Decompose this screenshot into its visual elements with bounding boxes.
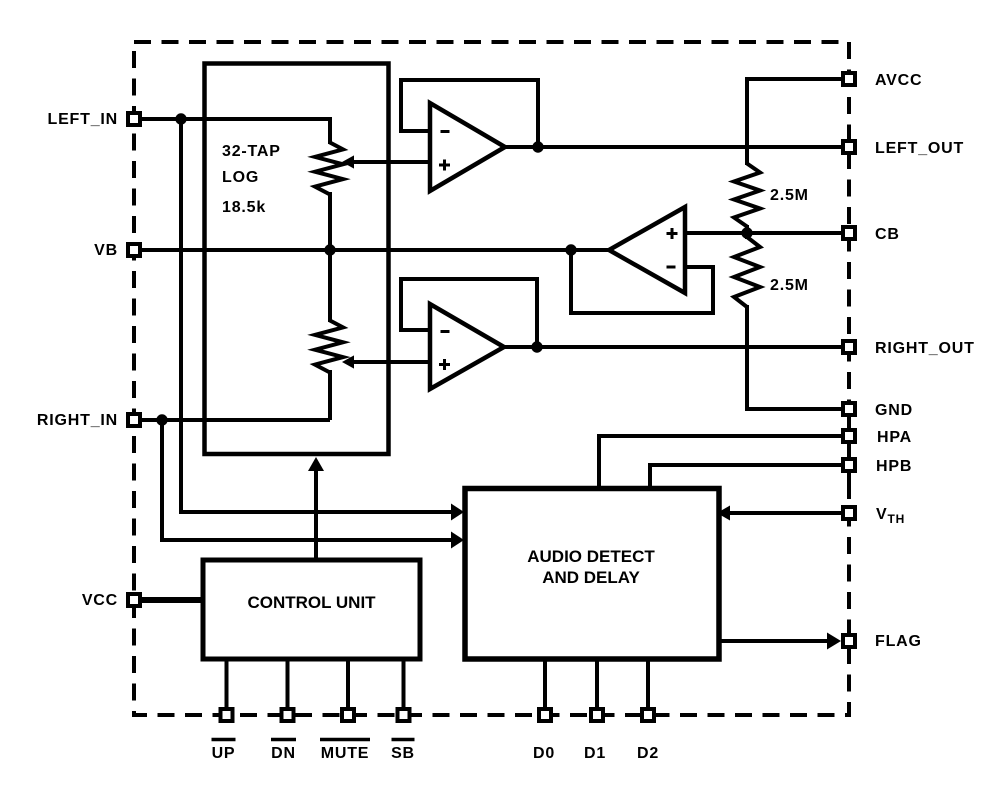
svg-text:D2: D2 bbox=[637, 745, 659, 762]
svg-text:VB: VB bbox=[94, 242, 118, 259]
svg-text:2.5M: 2.5M bbox=[770, 277, 809, 294]
svg-text:MUTE: MUTE bbox=[321, 745, 370, 762]
svg-text:D1: D1 bbox=[584, 745, 606, 762]
svg-text:CONTROL UNIT: CONTROL UNIT bbox=[247, 593, 376, 612]
svg-text:RIGHT_OUT: RIGHT_OUT bbox=[875, 340, 975, 357]
svg-text:CB: CB bbox=[875, 226, 900, 243]
svg-text:LEFT_OUT: LEFT_OUT bbox=[875, 140, 964, 157]
svg-text:DN: DN bbox=[271, 745, 296, 762]
svg-text:FLAG: FLAG bbox=[875, 633, 922, 650]
svg-text:RIGHT_IN: RIGHT_IN bbox=[37, 412, 118, 429]
svg-text:VCC: VCC bbox=[82, 592, 118, 609]
svg-text:18.5k: 18.5k bbox=[222, 199, 266, 216]
svg-text:UP: UP bbox=[212, 745, 236, 762]
svg-text:LOG: LOG bbox=[222, 169, 259, 186]
svg-text:D0: D0 bbox=[533, 745, 555, 762]
svg-text:32-TAP: 32-TAP bbox=[222, 143, 281, 160]
svg-text:AND DELAY: AND DELAY bbox=[542, 568, 640, 587]
svg-text:LEFT_IN: LEFT_IN bbox=[48, 111, 119, 128]
svg-text:SB: SB bbox=[391, 745, 415, 762]
svg-text:HPA: HPA bbox=[877, 429, 912, 446]
svg-text:GND: GND bbox=[875, 402, 913, 419]
svg-text:AVCC: AVCC bbox=[875, 72, 922, 89]
svg-text:HPB: HPB bbox=[876, 458, 912, 475]
svg-text:2.5M: 2.5M bbox=[770, 187, 809, 204]
svg-text:AUDIO DETECT: AUDIO DETECT bbox=[527, 547, 655, 566]
